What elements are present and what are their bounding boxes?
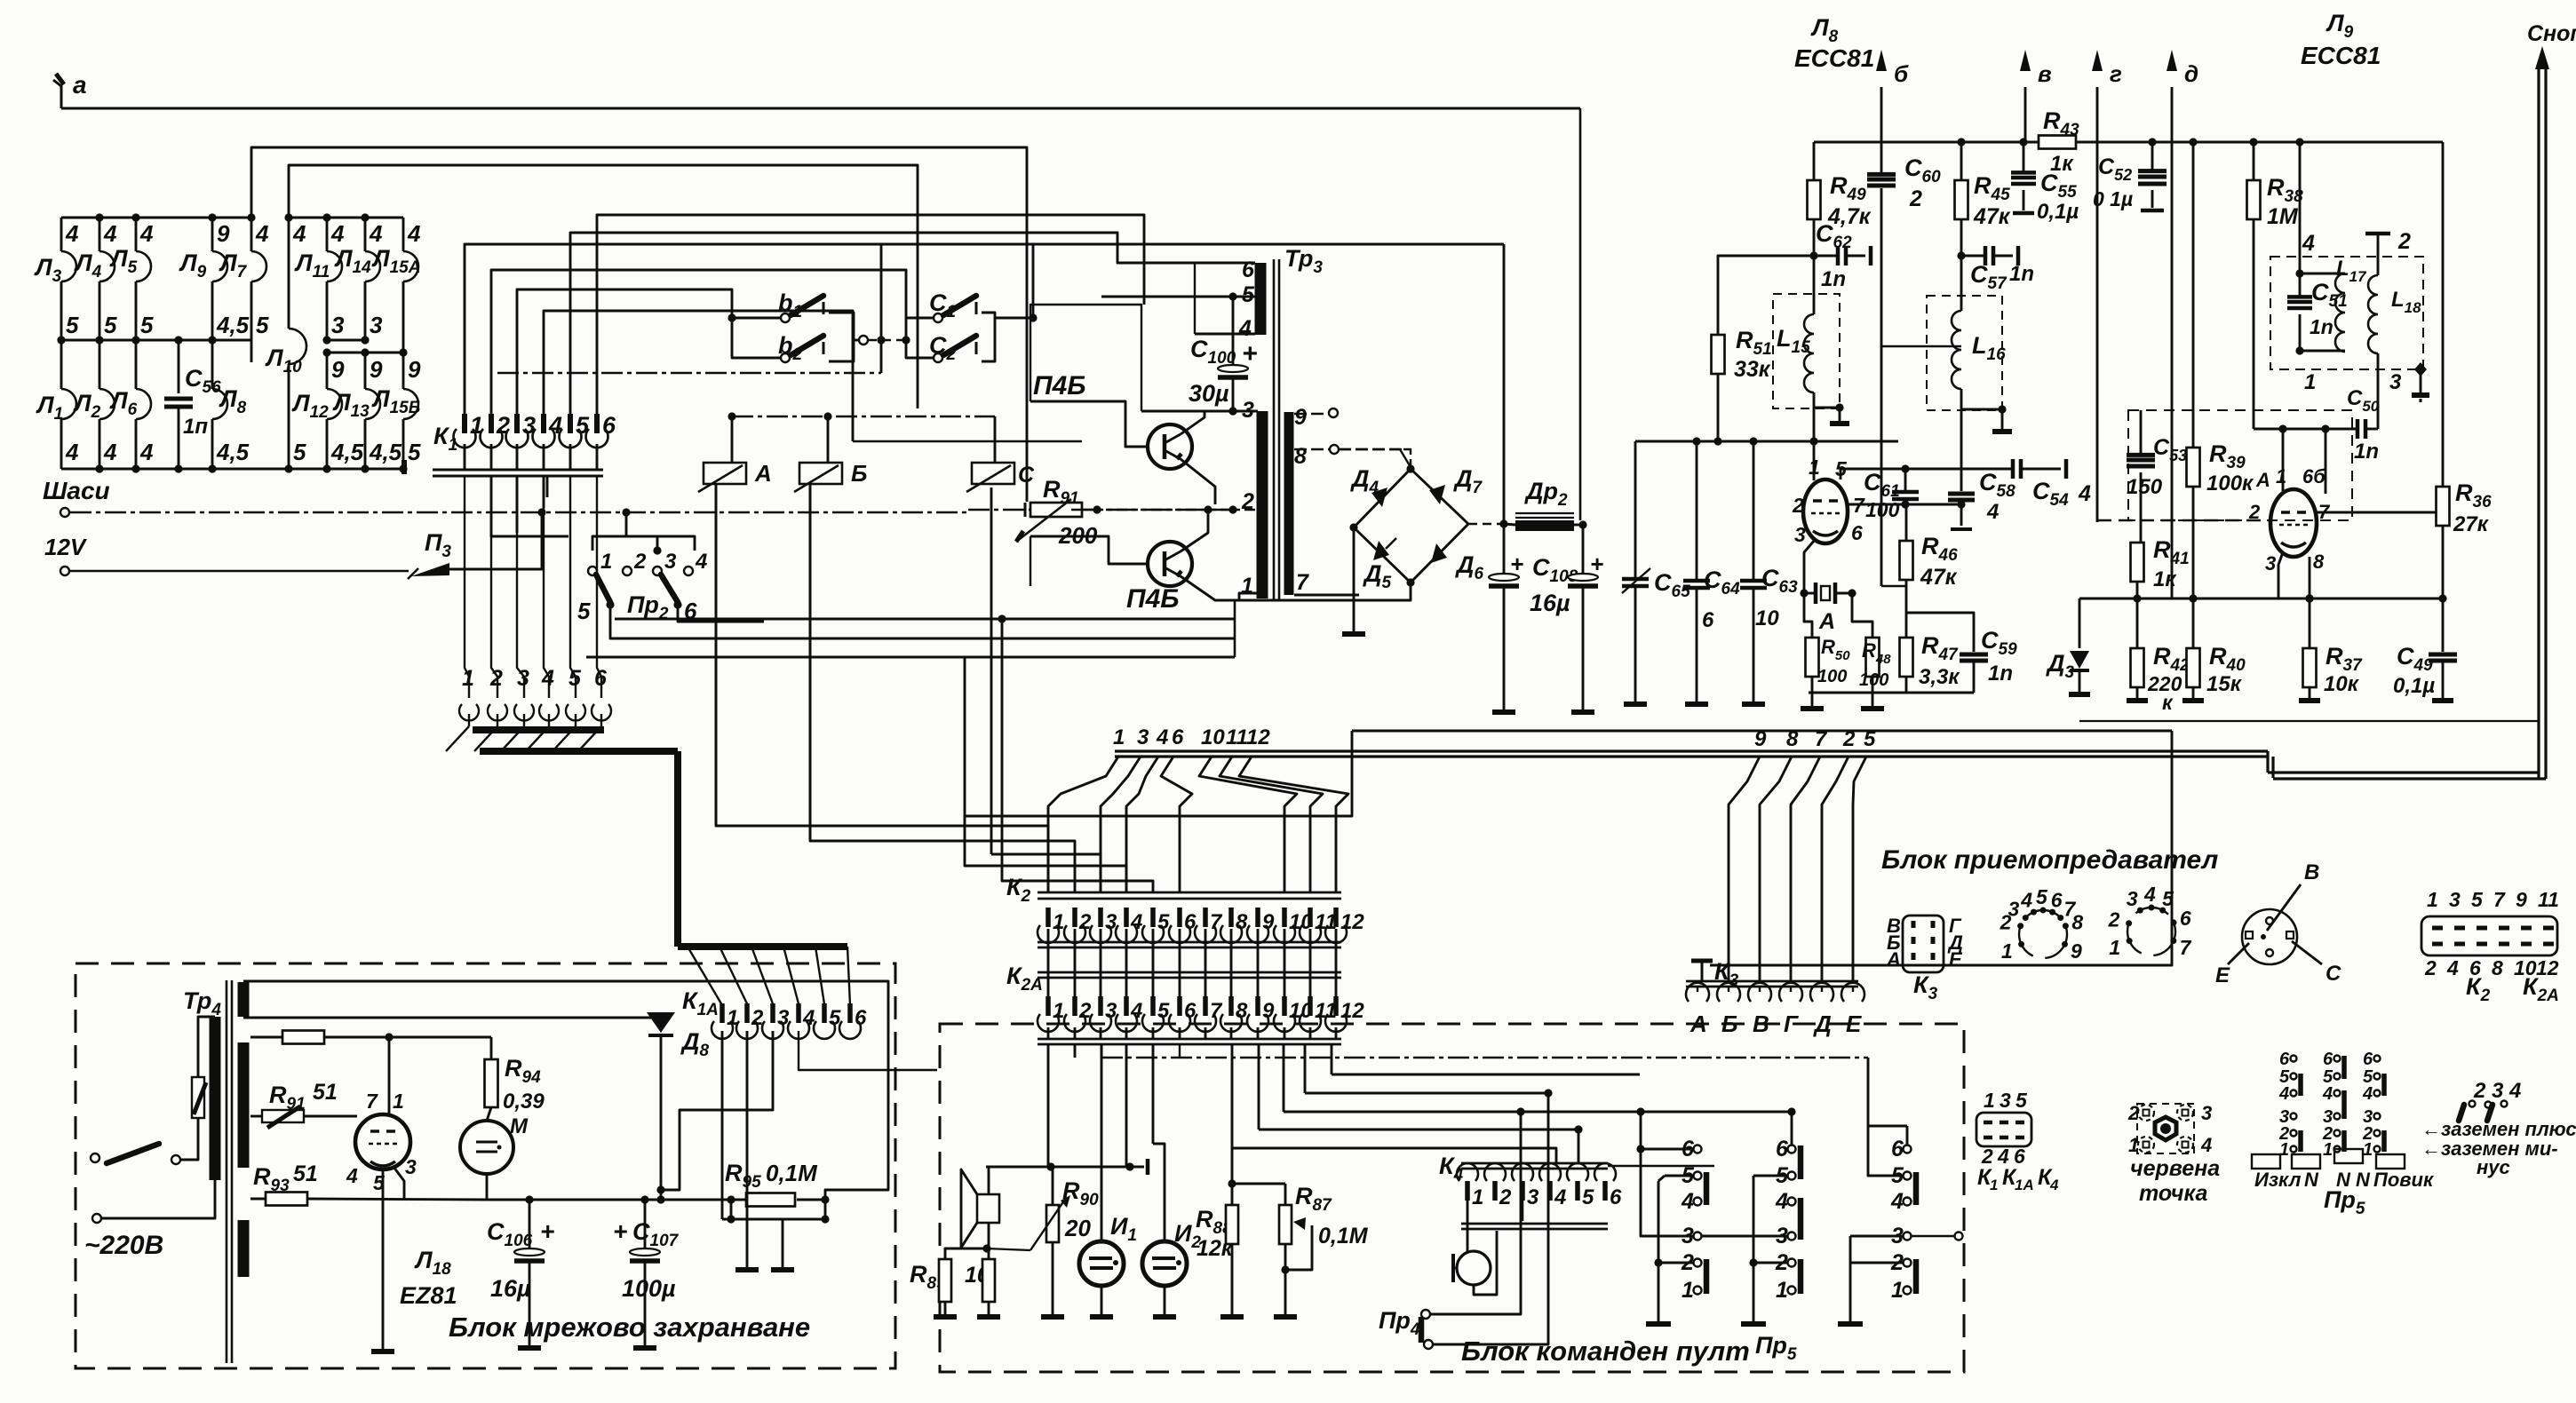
coil box L17 L18 (2270, 257, 2423, 369)
relay С (972, 463, 1014, 484)
fuse Пр1а (262, 1110, 304, 1122)
inductor L15 box (1773, 294, 1840, 408)
svg-text:2: 2 (1792, 494, 1804, 517)
svg-text:1: 1 (1776, 1278, 1788, 1303)
svg-text:6: 6 (2279, 1050, 2290, 1069)
tube heater Л1 (61, 389, 76, 419)
svg-text:1: 1 (2276, 465, 2286, 487)
wire col 325 (288, 218, 290, 329)
wire Пр2 upper rail (592, 536, 695, 551)
svg-text:4: 4 (1130, 910, 1142, 934)
wire filament mid bus right3 (327, 339, 365, 342)
svg-text:4,7к: 4,7к (1827, 204, 1872, 229)
svg-text:1М: 1М (2267, 204, 2299, 229)
wire R87 wiper (1285, 1225, 1312, 1270)
svg-text:51: 51 (313, 1080, 338, 1105)
wire tr2 collector (1181, 510, 1208, 551)
connector К2А pin 2 (1072, 996, 1077, 1016)
svg-text:1: 1 (2109, 936, 2120, 959)
svg-text:г: г (2110, 60, 2122, 87)
resistor R42 (2136, 598, 2139, 648)
wire ground rail right (2079, 720, 2539, 722)
wire relay С drop (990, 487, 993, 854)
svg-text:4: 4 (541, 666, 554, 691)
wire R90 wiper (987, 1248, 1030, 1250)
wire mic top (1467, 1201, 1469, 1252)
transformer Тр4 sec3 (238, 1220, 250, 1277)
wire К1 pin5 frame (570, 233, 1195, 416)
svg-text:4: 4 (1890, 1189, 1904, 1214)
switch bar (1798, 1198, 1804, 1240)
wire C bracket left (906, 318, 934, 358)
wire R51 bottom (1717, 374, 1720, 441)
svg-text:9: 9 (217, 220, 230, 247)
connector К2А pin 10 (1282, 996, 1287, 1016)
wire pin5 y528 (1841, 469, 2013, 480)
wire tr1 emitter (1181, 459, 1215, 504)
wire bundle main (1115, 749, 2268, 752)
wire column lower x112 (99, 340, 101, 389)
relay А (704, 463, 746, 484)
switch contact 2 (1694, 1259, 1702, 1267)
wire b bracket right (829, 313, 854, 361)
resistor R47 (1905, 613, 1908, 638)
switch Пр2 contact 2 (623, 567, 632, 575)
svg-text:4: 4 (1775, 1189, 1788, 1214)
connector pin 1 middle (459, 704, 479, 721)
connector К2 pin 12 (1333, 908, 1339, 927)
wire R45 bottom (1960, 219, 1963, 311)
svg-text:10к: 10к (2324, 672, 2360, 696)
svg-text:4: 4 (1554, 1185, 1566, 1209)
tube heater Л8 (212, 389, 227, 419)
wire column2 x454 (402, 218, 405, 251)
wire column x239 (211, 218, 214, 251)
terminal 220V upper (91, 1153, 99, 1162)
switch contact 6 (1694, 1145, 1702, 1153)
svg-text:4,5: 4,5 (369, 439, 402, 465)
connector К2А pin 12 (1333, 996, 1339, 1016)
switch contact 5 (1694, 1172, 1702, 1180)
svg-text:А: А (754, 460, 772, 487)
svg-text:16µ: 16µ (1530, 590, 1570, 616)
pinout red dot connector (2137, 1104, 2194, 1153)
wire Пр2 down2 (678, 605, 764, 622)
svg-text:+: + (613, 1217, 627, 1245)
svg-text:1п: 1п (183, 415, 208, 439)
svg-text:100µ: 100µ (622, 1275, 676, 1302)
svg-text:10: 10 (1755, 606, 1779, 630)
wire К2А bus top (1038, 971, 1341, 974)
pinout К2 К2А rect (2421, 916, 2557, 955)
resistor R46 (1905, 504, 1908, 541)
wire pin8 dash (1339, 448, 1403, 450)
pinout Пр5 boxes (2252, 1154, 2280, 1169)
svg-text:4: 4 (65, 439, 79, 465)
pinout К3 (1903, 916, 1944, 972)
wire column2 lower x411 (364, 353, 367, 389)
block border мрежово захранване (76, 963, 895, 1368)
wire К1 pin1 anode rail (465, 244, 1504, 416)
wire a B+ rail (61, 107, 1580, 110)
wire C60 to L16 (1881, 345, 1961, 348)
switch Пр2 lever 1-5 (596, 575, 610, 602)
wire bridge left to gnd (1353, 527, 1356, 632)
svg-text:3: 3 (2389, 370, 2402, 394)
svg-text:3: 3 (1137, 725, 1149, 749)
svg-text:EZ81: EZ81 (400, 1282, 457, 1309)
svg-text:Шаси: Шаси (43, 477, 110, 504)
svg-text:3: 3 (1794, 523, 1806, 546)
svg-text:+: + (1242, 339, 1258, 369)
connector К4 pin 1 (1457, 1163, 1478, 1181)
wire feed y166 (251, 147, 1027, 502)
svg-text:5: 5 (1864, 727, 1876, 751)
connector К1А pin 1 (720, 1003, 725, 1023)
connector К2А pin 8 (1228, 996, 1234, 1016)
wire L15 gnd (1814, 407, 1840, 409)
svg-text:4: 4 (1130, 999, 1142, 1023)
svg-text:1: 1 (2427, 888, 2438, 911)
wire К1 pin3 to b switches (517, 289, 732, 416)
wire К4 bus top (1461, 1162, 1608, 1165)
wire filament mid bus right9 (327, 352, 403, 354)
wire after П3 (449, 512, 542, 569)
wire b bracket left (727, 313, 735, 321)
switch contact 3 (1694, 1233, 1702, 1241)
svg-text:5: 5 (256, 312, 269, 338)
connector К2 pin 4 (1124, 908, 1129, 927)
switch contact 1 (1788, 1287, 1796, 1295)
wire column x69 (60, 218, 63, 251)
wire fuse (180, 1118, 198, 1160)
resistor R39 (2192, 142, 2195, 448)
ground bridge (1342, 631, 1365, 637)
switch contact 2 (1788, 1259, 1796, 1267)
wire stack1 5 (1658, 1182, 1660, 1263)
svg-text:12: 12 (1340, 999, 1364, 1023)
switch bar (1798, 1259, 1804, 1294)
svg-text:5: 5 (408, 439, 421, 465)
wire sec top rail (243, 981, 888, 1200)
wire К2 drop wires (1048, 757, 1118, 892)
inductor L16 box (1927, 296, 2002, 410)
wire crystal leads (1804, 592, 1816, 595)
wire bridge bottom (1235, 583, 1411, 600)
svg-text:Е: Е (1949, 948, 1963, 971)
wire tr2 base (1030, 536, 1148, 564)
ground box corner (2414, 362, 2427, 377)
connector К4 pin 6 (1594, 1163, 1616, 1181)
svg-text:4: 4 (103, 439, 117, 465)
wire pin6 Л9 (2325, 429, 2327, 494)
svg-text:7: 7 (366, 1090, 378, 1113)
svg-text:7: 7 (2493, 888, 2506, 911)
svg-text:6: 6 (2051, 888, 2063, 911)
connector К2А pin 3 (1098, 996, 1103, 1016)
svg-text:Е: Е (2215, 963, 2230, 987)
wire mic bottom (1474, 1231, 1497, 1295)
connector К2А pin 11 (1308, 996, 1313, 1016)
wire Л9 pin3 (2278, 552, 2283, 598)
wire R91 right (1082, 509, 1233, 511)
svg-text:3,3к: 3,3к (1919, 665, 1960, 689)
connector К3 pin Е (1841, 983, 1864, 1002)
connector К2 pin 8 (1228, 908, 1234, 927)
wire tr1 base (1030, 401, 1148, 447)
wire C bracket right (982, 313, 995, 361)
wire Л9 pin7 (2317, 511, 2443, 514)
svg-text:ЕСС81: ЕСС81 (1794, 44, 1874, 72)
svg-text:1: 1 (1053, 999, 1064, 1023)
switch contact 2 (1904, 1259, 1912, 1267)
connector pin 2 middle (488, 704, 507, 721)
wire EZ81 cathode (394, 1167, 404, 1200)
tube heater Л3 (61, 251, 76, 281)
connector К3 shield tab (1701, 963, 1704, 981)
wire grid rail y497 (1635, 440, 1898, 443)
connector К1А pin 4 (796, 1003, 801, 1023)
wire column x112 (99, 218, 101, 251)
resistor R49 (1813, 142, 1816, 180)
svg-text:П4Б: П4Б (1126, 584, 1180, 614)
wire К1А stubs (721, 1031, 724, 1219)
wire column lower x69 (60, 340, 63, 389)
svg-text:5: 5 (1242, 282, 1255, 307)
connector К2 pin 6 (1177, 908, 1182, 927)
svg-text:8: 8 (2492, 956, 2503, 979)
svg-text:7: 7 (1815, 727, 1828, 751)
svg-text:3: 3 (1527, 1185, 1539, 1209)
connector К2 pin 5 (1150, 908, 1156, 927)
connector К1А pin 3 (770, 1003, 775, 1023)
tube heater Л13 (365, 389, 380, 419)
connector pin 4 middle (539, 704, 559, 721)
wire console rail y1252 (1284, 1111, 1792, 1114)
svg-text:1: 1 (2001, 939, 2013, 963)
connector К4 pin 4 (1539, 1163, 1561, 1181)
connector К2А pin 9 (1255, 996, 1260, 1016)
wire R94-neon (487, 1107, 491, 1121)
connector К4 pin 3 (1512, 1163, 1533, 1181)
fuse Пр1 (192, 1077, 204, 1118)
svg-text:4: 4 (346, 1164, 358, 1187)
connector К1 pin 4 (541, 414, 546, 433)
microphone (1457, 1251, 1491, 1285)
svg-text:червена: червена (2130, 1156, 2220, 1181)
wire pin6 frame (1194, 263, 1196, 334)
svg-text:7: 7 (2180, 936, 2192, 959)
svg-text:0 1µ: 0 1µ (2093, 187, 2133, 210)
wire К4 right stub (1608, 1165, 1714, 1168)
resistor R50 (1804, 593, 1812, 638)
connector К1 pin 1 (462, 414, 467, 433)
svg-text:3: 3 (664, 550, 677, 574)
switch contact 6 (1904, 1145, 1912, 1153)
tube heater Л15Б (403, 389, 418, 419)
svg-text:В: В (2304, 860, 2319, 884)
wire К3 drop wires (1729, 757, 1760, 984)
svg-text:3: 3 (405, 1155, 417, 1178)
svg-text:27к: 27к (2453, 512, 2490, 536)
pinout circular 7pin (2127, 908, 2175, 955)
wire К2 bus top (1038, 892, 1341, 894)
svg-text:0,1М: 0,1М (1318, 1224, 1369, 1248)
svg-text:9: 9 (2071, 939, 2082, 963)
svg-text:1А: 1А (2015, 1177, 2034, 1193)
svg-text:к: к (2162, 691, 2174, 714)
junction (537, 508, 545, 516)
tube Л18 EZ81 (355, 1114, 410, 1169)
wire B+ riser (1579, 108, 1582, 520)
svg-text:5: 5 (140, 312, 154, 338)
supply arrow д (2171, 87, 2174, 598)
wire x1128 (1002, 619, 1153, 892)
svg-text:А: А (1818, 609, 1835, 634)
wire thick bundle (473, 726, 604, 733)
wire column x153 (135, 218, 138, 251)
pinout Пр5 positions (2291, 1056, 2297, 1062)
svg-text:7: 7 (1296, 570, 1309, 595)
svg-text:9: 9 (408, 356, 421, 383)
svg-text:4,5: 4,5 (330, 439, 364, 465)
tube heater Л15А (403, 251, 418, 281)
svg-text:3: 3 (331, 312, 345, 338)
svg-text:8: 8 (1786, 727, 1799, 751)
svg-text:5: 5 (2015, 1089, 2028, 1112)
wire filament top bus right (289, 217, 403, 219)
svg-text:1: 1 (600, 550, 612, 574)
svg-text:0,1µ: 0,1µ (2037, 200, 2079, 224)
wire anode rail y160 (1814, 141, 2039, 144)
wire 220 lower (102, 1180, 215, 1218)
svg-text:д: д (2184, 60, 2198, 87)
wire relay Б к К2 (810, 484, 1075, 892)
svg-text:6: 6 (1172, 725, 1184, 749)
wire EZ81 anode (388, 1037, 391, 1116)
resistor R41 (2131, 543, 2144, 582)
connector К1 pin 6 (594, 414, 600, 433)
wire К2 bus bottom (1038, 941, 1341, 944)
pinout circular 9pin (2019, 910, 2067, 958)
switch bar (1913, 1259, 1920, 1294)
switch bar (1704, 1172, 1710, 1205)
wire К1 pin drop (490, 444, 493, 470)
svg-text:16µ: 16µ (490, 1275, 531, 1302)
switch stack ground (1849, 1263, 1852, 1321)
svg-text:5: 5 (66, 312, 79, 338)
svg-text:1n: 1n (2310, 315, 2334, 338)
switch contact 4 (1694, 1198, 1702, 1206)
ground C108 right (1571, 709, 1594, 715)
connector К4 pin 2 (1484, 1163, 1506, 1181)
terminal pin2 T (2365, 232, 2390, 236)
switch Пр2 contact 3 (653, 567, 662, 575)
svg-text:2: 2 (2397, 229, 2411, 254)
wire bundle corner (2266, 751, 2269, 773)
svg-text:1n: 1n (2354, 440, 2379, 464)
svg-text:С: С (2326, 962, 2341, 986)
connector К2 pin 2 (1072, 908, 1077, 927)
svg-text:5: 5 (293, 439, 306, 465)
svg-text:4: 4 (65, 220, 79, 247)
tube heater Л5 (136, 251, 151, 281)
svg-text:3: 3 (2000, 1089, 2011, 1112)
svg-text:6: 6 (2323, 1050, 2334, 1069)
connector К3 pin В (1748, 983, 1771, 1002)
svg-text:15к: 15к (2206, 672, 2243, 696)
wire bundle to Snop (2268, 771, 2539, 773)
svg-text:2: 2 (496, 412, 510, 439)
svg-text:9: 9 (1754, 727, 1767, 751)
wire bridge frame (1354, 469, 1411, 527)
svg-text:3: 3 (370, 312, 383, 338)
svg-text:3: 3 (2201, 1102, 2212, 1124)
svg-text:2: 2 (2108, 908, 2120, 931)
svg-text:8: 8 (2313, 551, 2325, 573)
block border команден пулт (940, 1024, 1964, 1372)
svg-text:1: 1 (2323, 1140, 2333, 1160)
tube Л9 (2270, 489, 2317, 557)
switch Пр2 contact 1 (588, 567, 597, 575)
wire filament bottom bus (61, 468, 404, 471)
svg-text:2: 2 (1499, 1185, 1512, 1209)
svg-text:4: 4 (2020, 888, 2032, 911)
wire console rail y1293 (1232, 1148, 1556, 1163)
svg-text:6: 6 (2363, 1050, 2373, 1069)
wire stack3 3line (1955, 1233, 1963, 1241)
svg-text:б: б (1894, 60, 1909, 87)
supply arrow г (2096, 87, 2099, 522)
svg-text:1: 1 (2363, 1140, 2373, 1160)
svg-text:8: 8 (2071, 910, 2083, 933)
svg-text:а: а (73, 71, 87, 99)
svg-text:33к: 33к (1734, 357, 1771, 382)
svg-text:12: 12 (1246, 725, 1270, 749)
svg-text:6: 6 (1242, 258, 1255, 282)
wire column2 lower x368 (326, 353, 329, 389)
speaker (977, 1194, 999, 1223)
transformer Тр4 core (226, 980, 228, 1363)
tube heater Л6 (136, 389, 151, 419)
wire filament top bus left (61, 217, 251, 219)
wire EZ81 ground (382, 1169, 385, 1349)
wire К1 pin drop (516, 444, 519, 470)
wire R38 bottom (2253, 219, 2255, 429)
wire К1 pin drop (464, 444, 466, 470)
svg-text:в: в (2038, 60, 2052, 87)
svg-text:10: 10 (1201, 725, 1225, 749)
svg-text:6: 6 (2180, 907, 2191, 930)
wire relay Б drop (809, 487, 812, 841)
svg-text:1: 1 (1053, 910, 1064, 934)
svg-text:Блок команден пулт: Блок команден пулт (1461, 1336, 1750, 1367)
terminal 220V lower (92, 1214, 101, 1223)
relay Б (799, 463, 842, 484)
wire rail y1373 (722, 1218, 825, 1221)
wire line y1314 (986, 1166, 1144, 1169)
svg-text:1: 1 (1113, 725, 1125, 749)
terminal stub (1146, 1159, 1150, 1175)
svg-text:+: + (1510, 551, 1523, 577)
svg-text:А: А (1886, 948, 1901, 971)
tube heater Л4 (99, 251, 115, 281)
svg-text:А: А (2255, 469, 2270, 491)
grid dashed box (2128, 410, 2352, 520)
svg-text:9: 9 (2516, 888, 2527, 911)
transformer Тр3 core (1273, 259, 1276, 600)
switch 220V (107, 1144, 159, 1163)
